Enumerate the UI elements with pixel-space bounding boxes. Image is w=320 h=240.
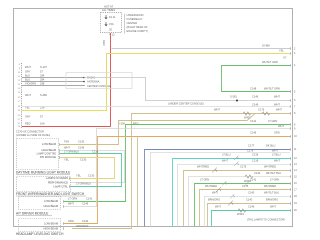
pin numbers of C270 xyxy=(18,64,21,128)
wire LT GRN/BLU M1 r3 to M2 r3 xyxy=(60,154,122,187)
svg-text:S-281: S-281 xyxy=(230,95,237,99)
svg-text:LT BLU: LT BLU xyxy=(222,152,231,156)
svg-text:GRY: GRY xyxy=(25,115,31,119)
legend bracket for fuse box xyxy=(124,14,126,34)
svg-text:C140: C140 xyxy=(82,219,89,223)
wire ORG trunk y136 from M4 r1 xyxy=(64,137,290,224)
wire YEL: row, riser, trunk xyxy=(22,54,290,111)
svg-text:BLU: BLU xyxy=(25,73,30,77)
svg-text:15A: 15A xyxy=(109,22,114,26)
svg-text:WHT/RED: WHT/RED xyxy=(205,184,217,188)
svg-text:WHT: WHT xyxy=(68,202,74,206)
svg-text:C130: C130 xyxy=(88,174,95,178)
svg-text:WHT/RED: WHT/RED xyxy=(264,164,276,168)
svg-text:P/N MODULE: P/N MODULE xyxy=(40,155,56,159)
module M3 xyxy=(19,197,61,210)
svg-text:ORG: ORG xyxy=(68,219,74,223)
svg-text:WHT: WHT xyxy=(25,93,31,97)
svg-text:C130: C130 xyxy=(80,157,87,161)
svg-text:C175: C175 xyxy=(258,108,265,112)
svg-text:WHT: WHT xyxy=(25,65,31,69)
svg-text:(TAIL LAMPS TO CONNECTOR): (TAIL LAMPS TO CONNECTOR) xyxy=(247,217,285,221)
wire RED: row from C270 to riser xyxy=(22,126,111,128)
svg-text:C141: C141 xyxy=(86,197,93,201)
svg-text:C146: C146 xyxy=(82,202,89,206)
svg-text:FRONT WIPER/WASHER AND LIGHT S: FRONT WIPER/WASHER AND LIGHT SWITCH xyxy=(16,192,85,196)
svg-text:LT GRN: LT GRN xyxy=(268,119,277,123)
cascade: WHT L xyxy=(178,165,291,227)
fuse symbol xyxy=(105,15,107,19)
svg-text:ANTENNA: ANTENNA xyxy=(87,80,100,84)
svg-text:ORG/WHT: ORG/WHT xyxy=(76,224,89,228)
svg-text:GRY: GRY xyxy=(25,70,31,74)
wire WHT y128.5 from M3 r2 xyxy=(64,129,290,207)
svg-text:S-280: S-280 xyxy=(40,93,47,97)
svg-text:GY: GY xyxy=(283,56,287,60)
svg-text:WHT: WHT xyxy=(274,102,280,106)
wire WHT row2 from C270 xyxy=(22,106,290,108)
fuse box F2 (top) xyxy=(101,13,122,33)
svg-text:LT GRN: LT GRN xyxy=(270,177,279,181)
svg-text:WHT/LT GRN: WHT/LT GRN xyxy=(264,86,280,90)
svg-text:F2.11: F2.11 xyxy=(109,15,116,19)
svg-text:HIGH BEAM: HIGH BEAM xyxy=(41,148,56,152)
pigtail C175 xyxy=(212,168,217,173)
svg-text:WHT: WHT xyxy=(222,158,228,162)
svg-text:WHT/RED: WHT/RED xyxy=(197,164,209,168)
svg-text:C148: C148 xyxy=(250,86,257,90)
svg-text:LOW BEAM: LOW BEAM xyxy=(42,142,56,146)
wire GY/BK trunk (top) xyxy=(112,48,291,50)
svg-text:WHT: WHT xyxy=(214,108,220,112)
module pin arcs xyxy=(59,143,70,229)
cascade: WHT teal L xyxy=(212,211,291,227)
svg-text:C219: C219 xyxy=(252,152,259,156)
wire WHT/LT GRN upper (green U) xyxy=(222,66,291,92)
svg-text:CENTER: CENTER xyxy=(127,21,138,25)
svg-text:ALL TIMES: ALL TIMES xyxy=(102,8,115,12)
svg-text:C141: C141 xyxy=(250,177,257,181)
svg-text:C140: C140 xyxy=(246,197,253,201)
wire khaki y120 from M1 r1 xyxy=(60,114,255,145)
cascade: BRN/ORG L xyxy=(208,204,291,227)
svg-text:GY/BK: GY/BK xyxy=(262,43,270,47)
svg-text:C140: C140 xyxy=(248,190,255,194)
svg-text:LAMP CTRL: LAMP CTRL xyxy=(53,185,68,189)
svg-text:C146: C146 xyxy=(248,204,255,208)
cascade: WHT L xyxy=(151,153,291,227)
svg-text:(RIGHT REAR OF: (RIGHT REAR OF xyxy=(127,25,149,29)
cascade: LT BLU L xyxy=(173,159,291,227)
svg-text:RED: RED xyxy=(133,122,139,126)
svg-text:WHT: WHT xyxy=(64,146,70,150)
svg-text:A/T DRIVER MODULE: A/T DRIVER MODULE xyxy=(16,212,48,216)
svg-text:WHT/LT BLU: WHT/LT BLU xyxy=(264,190,279,194)
svg-text:LT GRN/BLU: LT GRN/BLU xyxy=(76,182,91,186)
svg-text:LAMP CONT RE: LAMP CONT RE xyxy=(37,152,57,156)
cascade: WHT L3 xyxy=(205,197,291,227)
svg-text:C146: C146 xyxy=(250,131,257,135)
svg-text:C141: C141 xyxy=(250,119,257,123)
svg-text:WHT: WHT xyxy=(276,108,282,112)
svg-text:RED: RED xyxy=(102,40,106,46)
svg-text:WHT: WHT xyxy=(274,95,280,99)
wire RED vertical from fuse to connector row xyxy=(110,33,112,127)
svg-text:YEL: YEL xyxy=(76,174,81,178)
module M4 xyxy=(19,219,61,232)
cascade: WHT/RED L2 xyxy=(200,190,291,227)
wire khaki trunk y113 from M4 r2 xyxy=(72,114,290,229)
svg-text:(LOWER LH SIDE OF DASH): (LOWER LH SIDE OF DASH) xyxy=(16,133,50,137)
wire LT GRN trunk y124.5 from M3 r1 xyxy=(64,125,290,202)
svg-text:TAN: TAN xyxy=(64,140,69,144)
svg-text:BRN/ORG: BRN/ORG xyxy=(208,197,220,201)
svg-text:VIO/GRN: VIO/GRN xyxy=(25,81,36,85)
svg-text:C146: C146 xyxy=(252,95,259,99)
svg-text:C175: C175 xyxy=(240,164,247,168)
cascade: WHT/RED L xyxy=(184,171,291,227)
svg-text:C177: C177 xyxy=(248,143,255,147)
svg-text:C219: C219 xyxy=(92,150,99,154)
svg-text:LT BLU: LT BLU xyxy=(272,152,281,156)
svg-text:C175: C175 xyxy=(242,184,249,188)
svg-text:HEADLAMP LEVELING SWITCH: HEADLAMP LEVELING SWITCH xyxy=(16,232,64,235)
svg-text:BLU: BLU xyxy=(25,77,30,81)
svg-text:C146: C146 xyxy=(252,102,259,106)
svg-text:ORG: ORG xyxy=(274,131,280,135)
svg-text:S-206: S-206 xyxy=(118,122,125,126)
svg-text:S-107: S-107 xyxy=(40,65,47,69)
svg-text:LT GRN: LT GRN xyxy=(200,177,209,181)
svg-text:DAYTIME RUNNING LIGHT MODULE: DAYTIME RUNNING LIGHT MODULE xyxy=(16,171,70,175)
zigzag on y120 xyxy=(262,112,270,116)
svg-text:RED: RED xyxy=(25,122,31,126)
svg-text:YEL: YEL xyxy=(279,49,284,53)
wire WHT M1 r2 to M2 r2 xyxy=(60,151,125,183)
svg-text:(UNDER CENTER CONSOLE): (UNDER CENTER CONSOLE) xyxy=(168,102,204,106)
wire row 2 (black) xyxy=(22,81,84,83)
svg-text:WHT: WHT xyxy=(212,190,218,194)
svg-text:LT GRN: LT GRN xyxy=(68,197,77,201)
svg-text:UNDERHOOD: UNDERHOOD xyxy=(127,13,144,17)
svg-text:LOW BEAM: LOW BEAM xyxy=(44,222,58,226)
svg-text:WHT: WHT xyxy=(274,158,280,162)
cascade: DK BLU L xyxy=(145,150,291,227)
svg-text:YEL: YEL xyxy=(64,157,69,161)
svg-text:ENGINE COMP'T): ENGINE COMP'T) xyxy=(127,29,149,33)
svg-text:WHT: WHT xyxy=(272,149,278,153)
svg-text:PERFORMANCE: PERFORMANCE xyxy=(48,181,68,185)
svg-text:C219: C219 xyxy=(252,158,259,162)
svg-text:LT GRN/BLU: LT GRN/BLU xyxy=(64,150,79,154)
svg-text:16A: 16A xyxy=(40,122,45,126)
svg-text:HIGH BEAM: HIGH BEAM xyxy=(43,204,58,208)
svg-text:C270-XX CONNECTOR: C270-XX CONNECTOR xyxy=(16,129,44,133)
svg-text:298: 298 xyxy=(40,81,45,85)
wire row 3 (black) xyxy=(22,85,85,87)
cascade: LT GRN L xyxy=(195,184,291,227)
wire YEL M1 r4 to M2 r1 xyxy=(60,158,115,179)
svg-text:294: 294 xyxy=(40,73,45,77)
svg-text:FUSE/RELAY: FUSE/RELAY xyxy=(127,17,143,21)
svg-text:294: 294 xyxy=(40,77,45,81)
svg-text:WHT: WHT xyxy=(270,204,276,208)
svg-text:C130: C130 xyxy=(78,140,85,144)
svg-text:WHT/LT BLU: WHT/LT BLU xyxy=(266,171,281,175)
wire row to radio (black) xyxy=(22,77,84,79)
svg-text:LAMPS ON WARN: LAMPS ON WARN xyxy=(46,176,68,180)
wire WHT from radio splice to right pin xyxy=(84,78,290,101)
splice S-281 xyxy=(236,100,238,102)
svg-text:CENTER CONSOLE: CENTER CONSOLE xyxy=(87,84,111,88)
svg-text:C140: C140 xyxy=(254,171,261,175)
svg-text:BRN/ORG: BRN/ORG xyxy=(266,197,278,201)
svg-text:C146: C146 xyxy=(78,146,85,150)
svg-text:DK BLU: DK BLU xyxy=(266,143,275,147)
connector C270 (left, vertical dashed) xyxy=(21,63,23,128)
svg-text:W404: W404 xyxy=(237,212,244,216)
module M1: daytime running light module xyxy=(17,139,59,170)
svg-text:WHT: WHT xyxy=(278,124,284,128)
module M2: light switch xyxy=(17,177,71,192)
svg-text:HOT AT: HOT AT xyxy=(104,5,114,9)
svg-text:LOW BEAM: LOW BEAM xyxy=(44,199,58,203)
zigzag W402 xyxy=(243,112,251,116)
right edge pins xyxy=(289,47,292,211)
splice dot radio xyxy=(83,77,85,79)
cascade: WHT/LT BLU L xyxy=(189,177,291,227)
grouping outline around radio block xyxy=(66,73,132,89)
svg-text:WHT/LT GRN: WHT/LT GRN xyxy=(262,60,278,64)
cascade: khaki drop x137 xyxy=(137,137,139,227)
svg-text:WHT: WHT xyxy=(215,204,221,208)
svg-text:WHT/RED: WHT/RED xyxy=(264,184,276,188)
svg-text:HIGH BEAM: HIGH BEAM xyxy=(43,227,58,231)
page frame xyxy=(14,9,293,227)
svg-text:C179: C179 xyxy=(247,149,254,153)
